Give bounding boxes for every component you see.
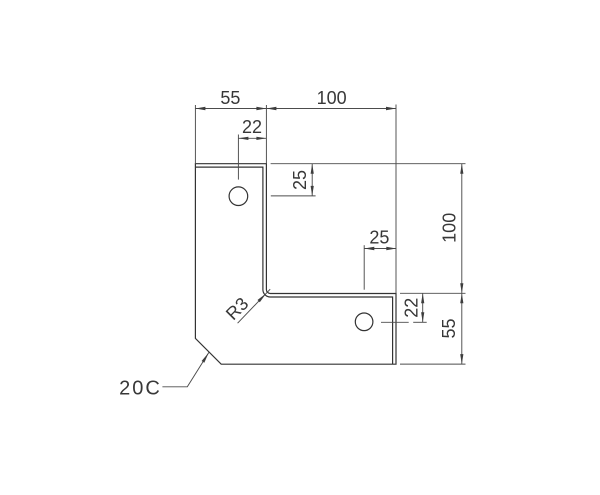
svg-text:20C: 20C — [119, 377, 162, 399]
svg-text:25: 25 — [369, 228, 389, 248]
svg-text:22: 22 — [242, 117, 262, 137]
svg-text:25: 25 — [290, 170, 310, 190]
svg-text:55: 55 — [220, 88, 240, 108]
svg-text:55: 55 — [439, 318, 459, 338]
svg-text:22: 22 — [402, 298, 422, 318]
svg-text:100: 100 — [317, 88, 347, 108]
svg-text:100: 100 — [440, 213, 460, 243]
